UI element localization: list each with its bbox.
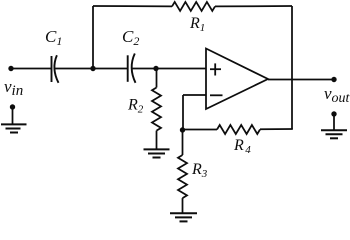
svg-text:vin: vin	[4, 77, 23, 99]
node B junction after C2	[153, 66, 158, 71]
node vin terminal	[8, 66, 13, 71]
ground R2	[144, 149, 170, 157]
wire C1 to C2	[55, 68, 128, 70]
wire C2 to op-amp plus input	[132, 68, 206, 70]
svg-text:R2: R2	[127, 97, 144, 116]
svg-text:C2: C2	[122, 27, 139, 48]
op-amp U1	[206, 49, 268, 110]
wire feedback right vertical	[291, 6, 293, 129]
capacitor C1	[52, 55, 59, 83]
resistor R3	[178, 130, 187, 213]
node vout terminal	[331, 77, 336, 82]
svg-text:C1: C1	[45, 27, 62, 48]
resistor R1	[172, 2, 215, 11]
wire node C to R4	[183, 129, 218, 131]
ground R3	[170, 213, 197, 221]
svg-text:R1: R1	[189, 15, 205, 34]
svg-text:R3: R3	[191, 161, 208, 180]
wire node A up to feedback	[92, 6, 94, 69]
resistor R4	[217, 125, 260, 134]
wire op-amp minus input	[183, 95, 223, 130]
node A junction after C1	[90, 66, 95, 71]
capacitor C2	[128, 54, 136, 83]
wire top feedback right segment	[215, 5, 292, 7]
node C junction R3 R4 minus	[180, 127, 185, 132]
wire R4 to feedback vertical	[260, 128, 293, 130]
wire input to C1	[11, 68, 52, 70]
svg-text:vout: vout	[324, 84, 350, 106]
wire top feedback left segment	[93, 5, 172, 7]
resistor R2	[152, 69, 161, 149]
svg-text:R4: R4	[233, 137, 251, 156]
ground input terminal	[1, 104, 27, 132]
ground output terminal	[321, 111, 347, 138]
wire op-amp output	[268, 79, 334, 81]
